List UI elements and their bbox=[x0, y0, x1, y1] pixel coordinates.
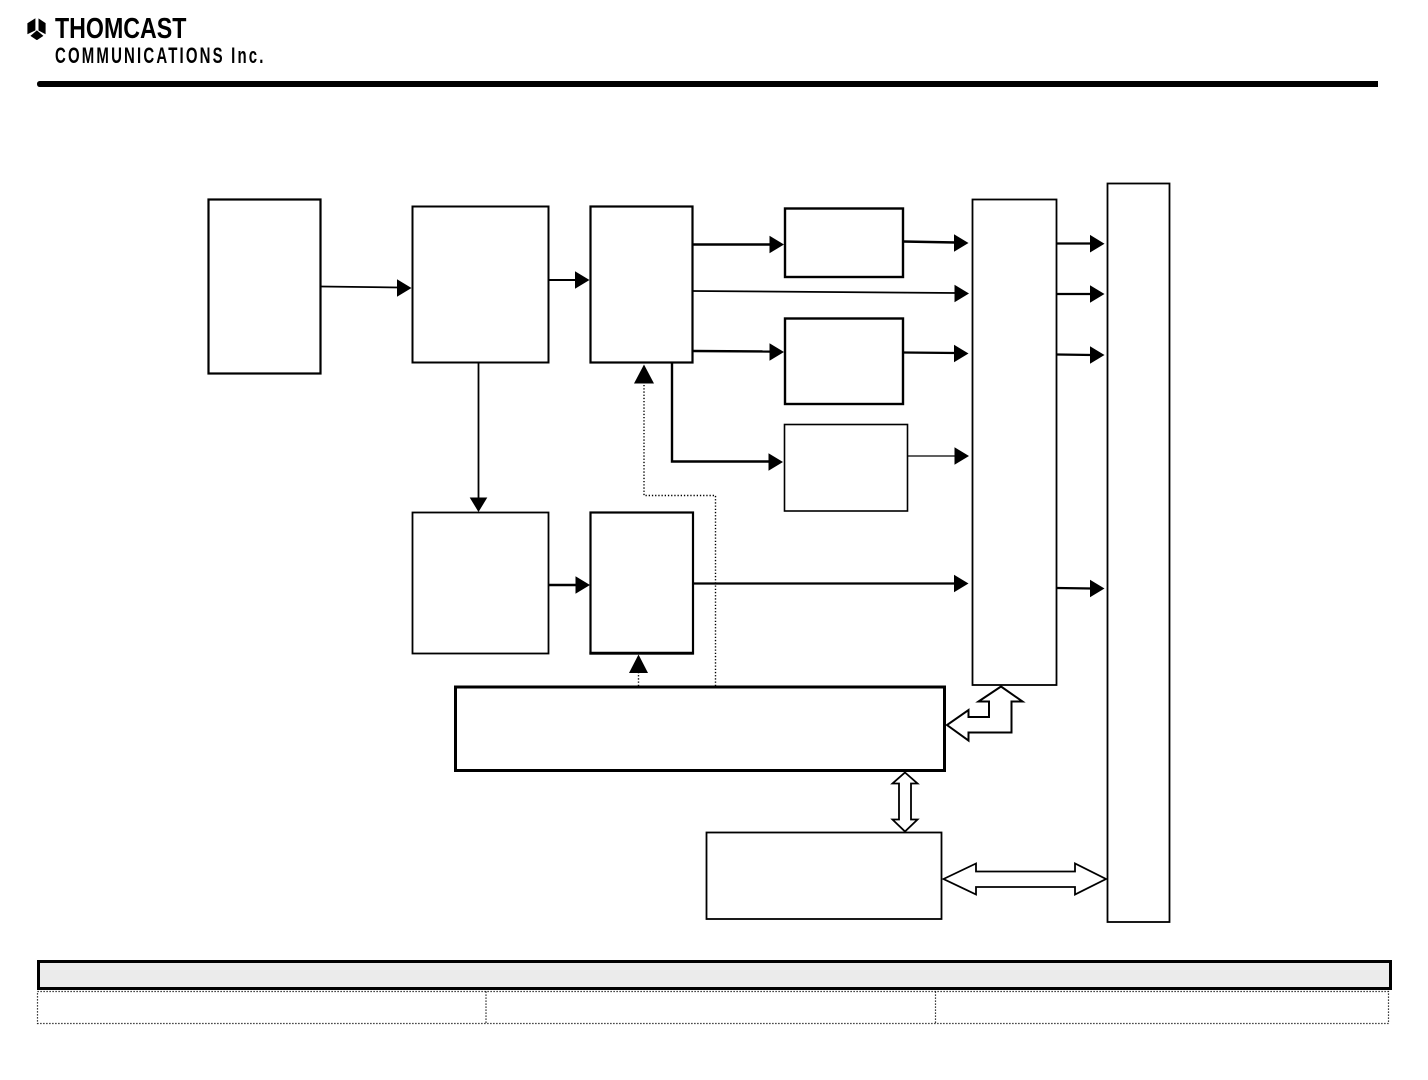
wire MUX to right tall 1 bbox=[1057, 235, 1105, 253]
logo icon bbox=[27, 18, 47, 41]
wire B2 down to B4 bbox=[470, 363, 488, 512]
block right tall bbox=[1108, 184, 1170, 923]
block BB bbox=[785, 319, 903, 405]
wire MUX to right tall 4 bbox=[1057, 580, 1105, 598]
block B4 bbox=[413, 513, 549, 654]
block B3 bbox=[591, 207, 693, 363]
wire B2 to B3 bbox=[549, 271, 590, 289]
footer gray bar bbox=[39, 962, 1391, 989]
dotted feedback wide box to B3 bbox=[634, 365, 716, 687]
block bottom interface bbox=[707, 833, 942, 920]
wire BA to MUX bbox=[903, 234, 969, 252]
wire BC to MUX bbox=[908, 447, 969, 465]
block B2 bbox=[413, 207, 549, 363]
block BA bbox=[785, 209, 903, 278]
block MUX bbox=[973, 200, 1057, 686]
logo text THOMCAST bbox=[55, 13, 186, 46]
wire B5 to MUX bbox=[693, 575, 969, 593]
block wide controller bbox=[456, 687, 945, 771]
hollow horizontal double arrow bottom box to right tall bbox=[944, 864, 1107, 895]
wire B3 to BB bbox=[693, 343, 784, 361]
hollow vertical double arrow wide box to bottom box bbox=[893, 773, 918, 832]
wire B1 to B2 bbox=[321, 279, 412, 297]
logo text COMMUNICATIONS Inc. bbox=[55, 43, 266, 69]
wire MUX to right tall 2 bbox=[1057, 285, 1105, 303]
wire BB to MUX bbox=[903, 345, 969, 363]
wire B3 to MUX bbox=[693, 285, 969, 303]
wire elbow B3 to BC bbox=[672, 363, 783, 471]
header rule bbox=[37, 81, 1378, 87]
block B1 input bbox=[209, 200, 321, 374]
footer dotted row bbox=[38, 992, 1389, 1024]
wire B3 to BA bbox=[693, 236, 784, 254]
block B5 bbox=[589, 513, 693, 654]
hollow elbow double arrow wide box to MUX bbox=[947, 687, 1023, 741]
block BC bbox=[785, 425, 908, 512]
dotted feedback wide box to B5 bbox=[629, 655, 648, 687]
wire MUX to right tall 3 bbox=[1057, 346, 1105, 364]
wire B4 to B5 bbox=[549, 576, 590, 594]
